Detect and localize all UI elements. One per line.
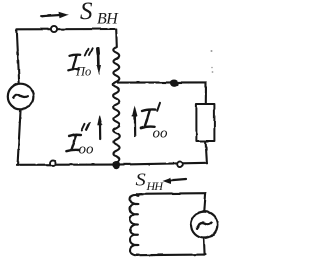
winding: autotransformer (HV/common) — [113, 30, 119, 165]
svg-text:оо: оо — [79, 142, 95, 158]
svg-text:По: По — [75, 65, 91, 79]
junction: winding bottom node — [113, 161, 120, 168]
wire: load branch right vertical lower — [206, 141, 207, 163]
wire: LV right vertical upper — [204, 193, 205, 211]
wire: load branch right vertical upper — [205, 82, 207, 104]
prime marks: I''_Po — [85, 48, 92, 55]
wire: bottom return — [17, 163, 208, 165]
prime mark: I'_oo — [157, 103, 160, 111]
letter I of I'_oo (hand-drawn) — [140, 109, 155, 128]
wire: top HV horizontal — [17, 29, 116, 31]
arrow: I''_Po down — [96, 49, 101, 76]
node: bottom-left terminal (open) — [50, 160, 56, 166]
junction: tap node on load wire — [171, 80, 179, 86]
arrow: I''_oo up — [97, 115, 102, 139]
letter I of I''_oo (hand-drawn) — [66, 135, 80, 151]
ac source G1 (HV side) — [8, 84, 34, 110]
wire: LV right vertical lower — [203, 238, 206, 255]
resistor (load) — [196, 104, 214, 141]
wire: left vertical lower (source to bottom) — [18, 110, 21, 164]
label S_HH arrow (left) — [163, 178, 187, 184]
speck artifacts near load branch — [211, 50, 214, 73]
node: bottom-right terminal (open) — [177, 162, 183, 168]
svg-text:ВН: ВН — [97, 10, 119, 27]
label S_BH — [80, 0, 119, 27]
arrow: I'_oo up — [132, 105, 138, 136]
winding: LV — [130, 194, 141, 256]
wire: LV loop top — [137, 192, 206, 195]
wire: left vertical upper (source to top) — [17, 30, 19, 85]
prime marks: I''_oo — [82, 123, 90, 130]
svg-text:S: S — [136, 171, 147, 191]
letter I of I''_Po (hand-drawn) — [68, 55, 80, 71]
label S_HH — [136, 171, 165, 193]
wire: LV loop bottom — [136, 254, 205, 257]
wire: tap to load — [118, 81, 206, 83]
arrow: S_BH direction (right) — [42, 12, 69, 18]
svg-text:S: S — [80, 0, 93, 25]
svg-text:оо: оо — [153, 126, 169, 142]
svg-text:НН: НН — [146, 179, 165, 193]
ac source G2 (LV side) — [191, 212, 217, 238]
node: HV input terminal (open) — [51, 26, 57, 32]
